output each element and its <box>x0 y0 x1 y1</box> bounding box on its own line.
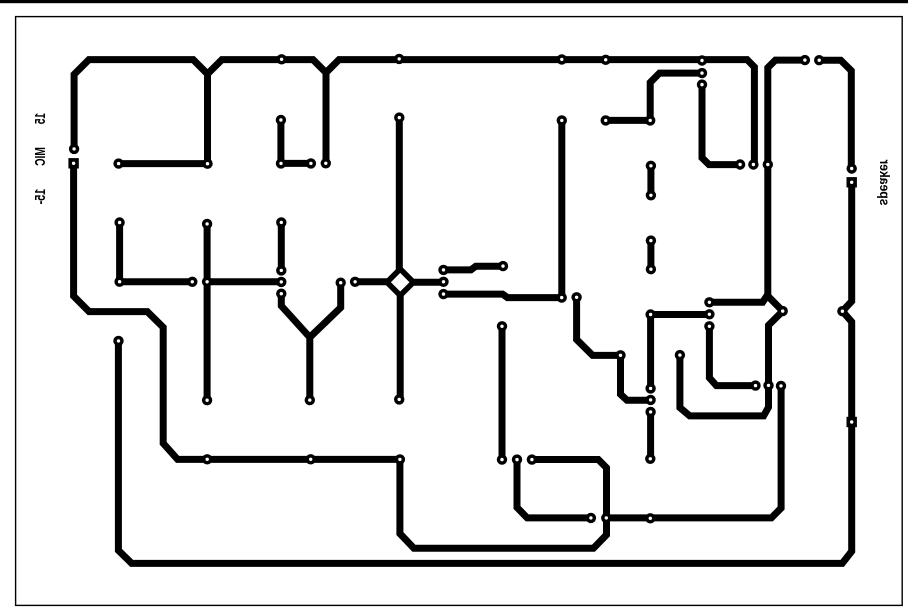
wire pad709 y326 down across to pad755 <box>709 326 755 385</box>
wire branch left to pad709 y302 <box>709 295 767 303</box>
wire from square pad851 y182 down to pad842 y311 <box>842 182 851 311</box>
wire dumbbell x650 y240-269 <box>647 241 654 270</box>
wire net V+ top-left: pad MIC+ up to top rail <box>74 60 207 164</box>
wire pad355 to diamond left <box>355 278 392 285</box>
wire branch diagonal to pad782 y311 <box>768 296 783 311</box>
wire horizontal y120 x605-650 <box>606 117 651 124</box>
wire n-shape2 pad819 to long vertical x851 down to pad851 y168 <box>819 60 851 168</box>
wire vertical x281 y222-270 <box>278 222 285 270</box>
wire pad650 y412 down to pad650 y459 <box>647 412 654 459</box>
wire mic horizontal y163 <box>119 160 208 167</box>
square pad MIC x74 y163 <box>68 158 78 168</box>
wire pad443 y269 jog to pad503 <box>444 266 504 270</box>
wire top rail middle segment <box>208 60 327 164</box>
wire junction y518 right and up to pad781 y386 <box>606 386 781 518</box>
wire from square pad74 y163 long route to pad row y459 <box>74 163 400 459</box>
wire vertical x207 y223-400 <box>204 224 211 400</box>
wire Y right arm pad340 y282 <box>310 283 341 338</box>
square pad speaker x851 y182 <box>847 177 857 187</box>
label -15 <box>20 181 61 211</box>
wire pad620 down to pad650 y400 <box>621 355 651 400</box>
wire n-shape from pad804 down long vertical x768 <box>768 60 805 296</box>
label MIC <box>20 142 61 170</box>
top black bar <box>0 0 908 3</box>
wire from pad399 y459 down around to loop top pad531 <box>400 459 607 548</box>
square pad x851 y422 <box>847 417 857 427</box>
wire from pad782 down around U to pad679 <box>680 311 783 416</box>
wire pad650 y314 down to pad650 y388 <box>647 315 654 389</box>
wire long vertical x502 <box>499 326 506 459</box>
wire vertical x561.8 <box>558 120 565 297</box>
wire vertical x399 pad117 to diamond <box>396 118 403 272</box>
pads: black annulus circles <box>69 54 857 524</box>
wire y281 junction right to pad281 <box>207 278 281 285</box>
wire pad702 y84 down to y164 across to pad740 <box>702 85 740 165</box>
wire elbow pad702 y73 to x650 y120 <box>650 73 702 120</box>
wire horizontal y163 x281-311 <box>281 160 311 167</box>
label 15 <box>20 105 61 133</box>
wire pad119 y222 down to y281 <box>116 223 123 282</box>
wire Y left arm pad281 y293 down to x309 <box>281 294 310 400</box>
wire right edge long run down to bottom rail across to left and up to pad118 <box>118 311 851 563</box>
wire dumbbell x650 y165-195 <box>647 166 654 196</box>
diamond pad center <box>383 265 417 299</box>
wire diamond bottom to pad399 y399 <box>397 293 404 400</box>
label speaker <box>854 156 908 209</box>
wire y281 x119-192 <box>120 278 193 285</box>
wire pad576 down across to pad620 <box>577 297 621 355</box>
wire pad650 y314 right to pad709 <box>651 311 710 318</box>
wire stub x281 y120-163 <box>277 120 284 163</box>
wire loop left pad517 down to pad590 <box>517 460 591 518</box>
wire top rail long segment to right <box>326 60 754 165</box>
wire pad443 y294 jog to pad561 <box>444 294 562 298</box>
wire diamond right to pad443 <box>409 279 444 286</box>
pad holes: white centers <box>72 57 854 520</box>
